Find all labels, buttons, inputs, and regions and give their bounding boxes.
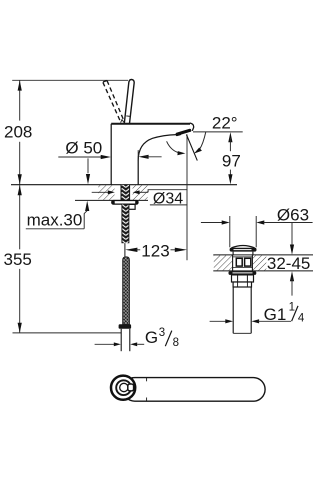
deck bottom surface line (75, 199, 148, 201)
dimension G 1 1/4 label (264, 302, 305, 325)
22 degrees reference underline (193, 131, 243, 133)
dimension diameter 50 leader line (58, 156, 103, 158)
drain tailpipe (233, 287, 251, 333)
svg-text:22°: 22° (212, 113, 238, 132)
drain plug extension line right (255, 216, 257, 247)
dimension 97 top arrow (228, 132, 232, 151)
sink deck top line (213, 254, 313, 256)
svg-text:Ø 50: Ø 50 (65, 139, 102, 158)
handle boss inner ring (120, 383, 128, 391)
svg-text:97: 97 (222, 151, 241, 170)
drain flange under deck (229, 271, 257, 275)
drain body through deck (233, 255, 253, 271)
dimension 32-45 top arrow (290, 223, 294, 255)
spout underside curve and body right edge (138, 135, 176, 185)
drain nut lower ring (233, 282, 251, 287)
svg-text:Ø63: Ø63 (277, 206, 309, 225)
deck hatch right of faucet (133, 185, 148, 200)
dimension diameter 34 label box (148, 190, 187, 205)
svg-text:1: 1 (289, 302, 295, 314)
dimension 355 line (19, 185, 21, 333)
svg-text:208: 208 (4, 123, 32, 142)
lever raised top cap dash (103, 81, 107, 83)
lever joint tick (126, 115, 130, 117)
handle boss middle ring (116, 380, 131, 395)
lever handle (solid position) (124, 79, 134, 123)
angle leader arrow from 22 degrees (194, 132, 206, 154)
dimension diameter 63 right arrow and underline (256, 220, 312, 224)
sink deck hatch right of drain (253, 256, 266, 271)
drain locknut (232, 275, 254, 282)
svg-text:355: 355 (4, 250, 32, 269)
dimension diameter 34 left arrow (92, 190, 115, 194)
dimension max.30 bottom arrow and leader (26, 201, 90, 229)
hose crimp collar (119, 324, 132, 329)
deck top surface line (11, 184, 237, 186)
svg-text:Ø34: Ø34 (153, 190, 183, 207)
drain body window left (236, 258, 242, 266)
dimension 208 arrow down (18, 174, 22, 184)
drain plug extension line left (229, 216, 231, 247)
svg-text:123: 123 (141, 242, 169, 261)
extension line right of body (137, 150, 139, 161)
aerator outlet (177, 130, 190, 134)
dimension G 3/8 label (145, 327, 179, 349)
handle boss tab (128, 384, 134, 391)
svg-text:8: 8 (173, 337, 179, 349)
braided flexible hose (123, 257, 130, 325)
angle arc arrow left (167, 141, 186, 155)
sink deck bottom line (213, 270, 313, 272)
svg-text:G: G (145, 328, 158, 347)
mounting shank thread through deck (121, 185, 130, 201)
drain plug neck (233, 252, 253, 255)
drain plug cap rim (230, 248, 257, 252)
dimension diameter 50 right arrow (pointing left) (138, 155, 161, 159)
water stream angle line (186, 135, 197, 161)
spout outlet vertical reference line (186, 134, 188, 260)
svg-text:4: 4 (298, 313, 305, 325)
threaded mounting rod (122, 204, 129, 243)
dimension diameter 63 left arrow (201, 220, 230, 224)
dimension diameter 50 arrow right (101, 155, 111, 159)
aerator lip (177, 133, 180, 136)
svg-text:max.30: max.30 (27, 211, 83, 230)
svg-text:32-45: 32-45 (267, 254, 310, 273)
handle capsule tick top (146, 378, 148, 382)
deck hatch left of faucet (98, 185, 114, 200)
dimension 208 arrow up (18, 80, 22, 90)
faucet body left edge (110, 124, 112, 185)
extension line bottom (hose end level) (13, 332, 122, 334)
dimension 123 right arrow (171, 248, 188, 252)
dimension G 1 1/4 right arrow (251, 319, 291, 323)
mounting washer under deck (112, 200, 139, 204)
sink deck hatch left of drain (214, 256, 232, 271)
lever base pivot marks (121, 120, 124, 123)
dimension diameter 34 right arrow (133, 190, 149, 194)
handle top view capsule (123, 378, 265, 402)
drain body window right (245, 258, 251, 266)
svg-text:3: 3 (159, 327, 165, 339)
dimension 208 line (19, 80, 21, 184)
dimension max.30 top arrow (86, 158, 90, 184)
rod centerline (124, 243, 126, 257)
drain plug cap dome (231, 246, 254, 248)
lever handle raised (dashed) line 2 (107, 81, 124, 121)
lever handle raised (dashed) line 1 (103, 82, 120, 121)
dimension 123 left arrow (125, 248, 140, 252)
dimension 97 bottom arrow (228, 170, 232, 185)
dimension G 1 1/4 left arrow (210, 319, 233, 323)
faucet top edge and spout nose (111, 123, 190, 125)
handle capsule tick bottom (146, 398, 148, 402)
dimension G 3/8 left arrow (95, 342, 121, 346)
dimension 355 arrow down (18, 323, 22, 333)
svg-text:G1: G1 (264, 305, 287, 324)
G 3/8 tube (121, 329, 130, 351)
dimension G 3/8 right arrow (130, 342, 144, 346)
dimension 32-45 bottom arrow (290, 271, 294, 296)
hose connection stub (129, 204, 135, 209)
handle boss outer ring (111, 376, 135, 400)
extension line top (lever top level) (12, 79, 128, 81)
dimension 355 arrow up (18, 185, 22, 195)
